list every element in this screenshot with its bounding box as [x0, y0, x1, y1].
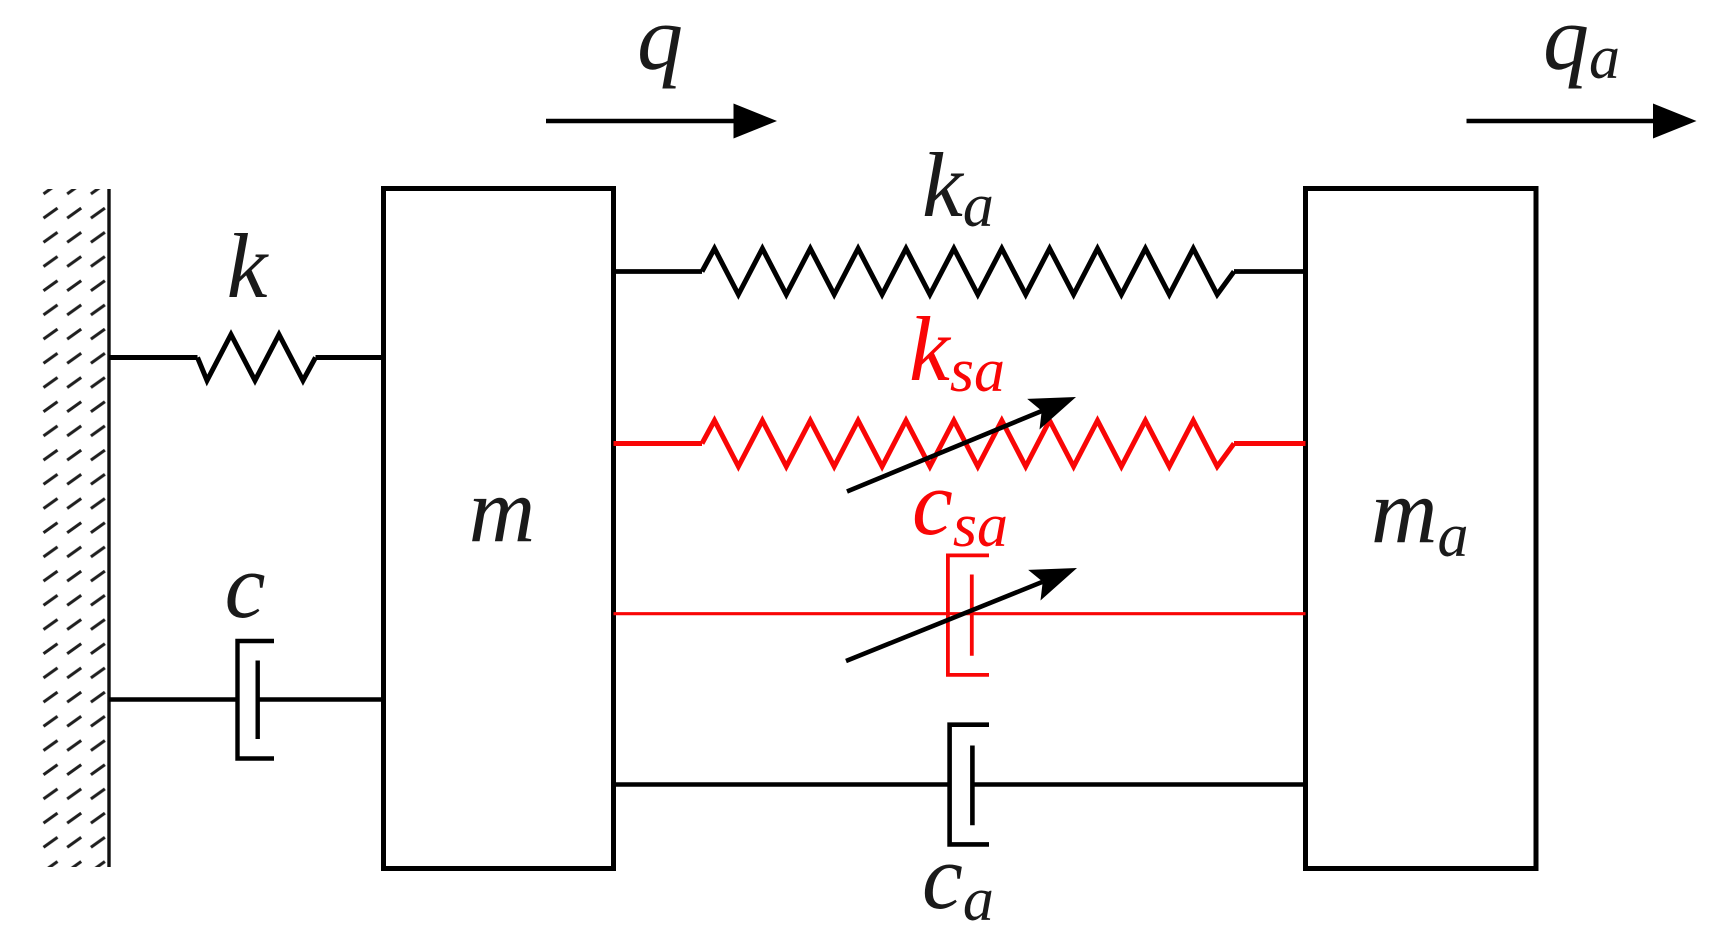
svg-text:c: c: [225, 535, 266, 637]
svg-text:m: m: [469, 459, 535, 561]
svg-text:q: q: [637, 0, 683, 89]
svg-text:k: k: [227, 215, 270, 317]
